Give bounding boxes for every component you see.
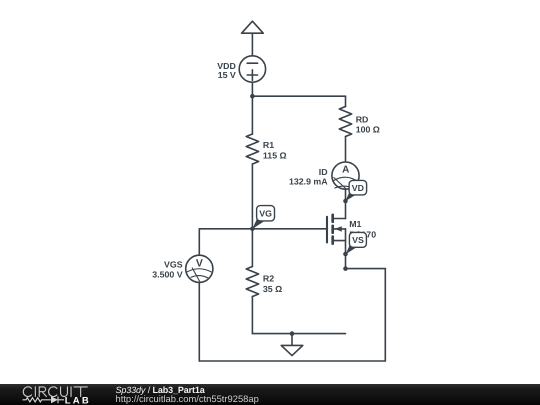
node ground junction [290,331,295,336]
CircuitLab logo [18,384,98,405]
resistor R2 [246,267,258,297]
svg-text:3.500 V: 3.500 V [152,270,182,280]
net flag VD [345,180,366,201]
svg-text:35 Ω: 35 Ω [263,284,282,294]
wire voltmeter to gate wire [198,229,200,255]
svg-text:VS: VS [352,235,364,245]
ammeter ID [332,162,359,189]
wire arrow to VDD source [251,33,253,56]
wire top horizontal [252,95,345,97]
svg-text:LAB: LAB [65,396,91,405]
svg-text:R1: R1 [263,140,274,150]
node top junction [250,94,255,99]
wire R2 to bottom [251,297,253,334]
power flag arrow (VDD net) [242,21,264,33]
resistor RD [339,107,351,137]
wire bottom outer horizontal [199,360,385,362]
svg-text:VGS: VGS [164,260,183,270]
svg-text:15 V: 15 V [218,70,236,80]
wire right vertical outer [384,269,386,361]
wire top to RD [345,96,347,106]
wire VG node to R2 [251,229,253,267]
voltmeter VGS [186,255,213,282]
svg-text:ID: ID [319,167,328,177]
node source junction [343,266,348,271]
net flag VS [346,232,367,254]
footer title text [116,386,205,395]
wire left vertical outer [198,282,200,361]
net flag VG [252,206,274,229]
wire bottom inner horizontal [252,333,345,335]
ground [281,334,303,356]
svg-text:M1: M1 [349,219,361,229]
voltage source VDD [239,56,265,82]
svg-text:VD: VD [352,183,364,193]
svg-text:132.9 mA: 132.9 mA [289,177,328,187]
footer bar [0,384,540,405]
transistor M1 NMOS [327,215,346,244]
svg-text:115 Ω: 115 Ω [263,151,287,161]
svg-text:R2: R2 [263,273,274,283]
wire gate horizontal [199,228,327,230]
wire M1 body/source to source node [345,229,347,269]
resistor R1 [246,134,258,164]
wire source node to right [346,268,386,270]
svg-text:V: V [196,257,203,269]
node VD attach [343,199,348,204]
svg-text:A: A [342,165,349,176]
node VS attach [343,252,348,257]
wire VDD source to top node [251,82,253,96]
svg-text:RD: RD [356,114,369,124]
node VG junction [250,227,255,232]
wire ammeter to drain [345,189,347,218]
wire RD to ammeter [345,137,347,163]
svg-text:100 Ω: 100 Ω [356,124,380,134]
footer url text [116,394,259,403]
wire R1 to VG node [251,164,253,229]
svg-text:VG: VG [259,209,272,219]
wire top node to R1 [251,96,253,134]
